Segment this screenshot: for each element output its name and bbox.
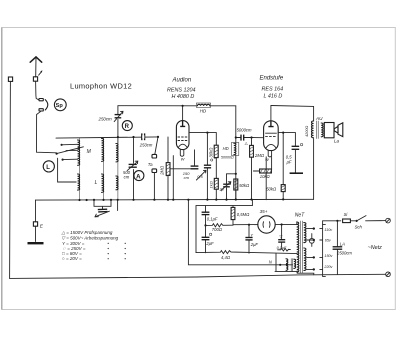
svg-text:Audion: Audion	[172, 78, 192, 84]
wire antenna to Sp jack	[36, 81, 39, 100]
endstufe anode cap wire	[270, 106, 272, 121]
anode wire audion side	[189, 133, 216, 146]
svg-text:R: R	[125, 124, 130, 130]
hum cap 0,1uF	[281, 225, 283, 248]
box column 0,1uF / 2uF	[205, 206, 207, 253]
antenna trimmer column wire	[117, 106, 119, 143]
svg-text:2MΩ: 2MΩ	[160, 165, 165, 176]
speaker feed column	[313, 106, 315, 199]
tube V2 top cap	[268, 121, 273, 126]
cathode cap column	[206, 133, 208, 200]
tap labels	[323, 228, 333, 269]
earth ground symbol	[28, 242, 44, 244]
heater wire from rail	[188, 200, 292, 265]
svg-text:L: L	[46, 165, 50, 171]
svg-text:1kΩ: 1kΩ	[209, 181, 214, 188]
svg-text:RENS 1204: RENS 1204	[167, 88, 195, 94]
svg-text:0,1μF: 0,1μF	[207, 216, 218, 221]
circle A	[134, 171, 144, 181]
svg-text:L 416 D: L 416 D	[264, 94, 283, 100]
svg-text:50kΩ: 50kΩ	[266, 186, 277, 191]
svg-text:2μF: 2μF	[250, 242, 259, 247]
cathode resistor 50k	[281, 185, 285, 192]
endstufe filament columns	[266, 157, 271, 200]
ground rail y=200	[36, 198, 314, 201]
coupling coil column	[117, 143, 119, 200]
junction hum cap	[281, 223, 283, 225]
svg-text:50kΩ: 50kΩ	[239, 183, 250, 188]
Sp jack lower contact	[39, 109, 43, 111]
trimmer capacitor 250cm	[115, 115, 122, 118]
tuning cap bracket below rail	[94, 200, 111, 209]
label Audion tube type	[167, 78, 195, 101]
svg-text:HD: HD	[200, 109, 207, 114]
svg-text:~Netz: ~Netz	[368, 245, 383, 251]
left earth post terminal	[8, 77, 12, 81]
tube V1 filament arc	[178, 144, 187, 147]
rectifier anode wire	[233, 224, 258, 226]
output transformer AU primary	[311, 121, 313, 138]
trimmer capacitor 500cm	[129, 164, 137, 167]
tube V2 grid dashes	[265, 133, 277, 136]
svg-text:250cm: 250cm	[139, 142, 153, 147]
svg-text:H 4080 D: H 4080 D	[172, 94, 195, 100]
grid circuit 500cm trimmer column	[133, 137, 135, 200]
svg-text:700Ω: 700Ω	[212, 227, 223, 232]
tone capacitor 0,5uF	[283, 133, 295, 147]
svg-text:Lumophon WD12: Lumophon WD12	[70, 82, 132, 91]
svg-text:Ta: Ta	[148, 162, 153, 167]
svg-text:cm: cm	[124, 175, 130, 180]
selector to fuse wire	[323, 221, 341, 225]
top wire endstufe	[271, 105, 314, 108]
fuse Si	[343, 219, 351, 223]
grid stopper 10k	[260, 169, 272, 173]
series capacitor 250cm	[142, 133, 145, 140]
svg-text:2μ: 2μ	[219, 188, 224, 192]
top coil bus wire	[56, 137, 158, 138]
tube V2 filament arc	[266, 144, 276, 147]
tube V1 top cap	[180, 121, 185, 126]
dial lamp	[309, 238, 314, 243]
svg-text:150v: 150v	[324, 254, 333, 258]
wave switch arm	[57, 147, 84, 154]
screen resistor 30k	[214, 145, 218, 157]
rectifier tube 35	[258, 216, 275, 233]
earth branch E	[35, 200, 37, 222]
label Endstufe tube type	[260, 76, 284, 100]
svg-text:Y: Y	[250, 233, 253, 238]
switch contact dots	[61, 144, 63, 146]
svg-text:4200Ω: 4200Ω	[305, 126, 309, 137]
svg-text:0,5: 0,5	[197, 174, 203, 179]
mains switch Sch	[356, 220, 358, 222]
tube V2 filament leads	[268, 150, 271, 157]
tube V1 audion envelope	[176, 121, 189, 150]
tube V1 filament leads	[180, 150, 184, 157]
svg-text:AU: AU	[315, 116, 323, 121]
Ta pickup branch	[155, 137, 158, 154]
legend	[61, 230, 126, 261]
Sp jack upper contact	[39, 99, 43, 101]
heater winding	[286, 259, 288, 270]
mains terminal lower	[386, 272, 391, 277]
bias box outline	[196, 200, 252, 253]
wire Sp to switch	[37, 111, 57, 153]
coil M lower	[78, 174, 80, 190]
loudspeaker La	[324, 123, 334, 138]
rail junction dots	[78, 198, 284, 201]
NeT primary winding	[297, 222, 299, 272]
filament columns to rail	[168, 137, 173, 200]
svg-text:Sp: Sp	[56, 103, 64, 109]
anode branch right	[278, 133, 283, 200]
box bottom wire	[196, 251, 297, 254]
junction grid cap on top wire	[182, 105, 184, 107]
anode choke HD	[234, 143, 236, 155]
svg-text:110v: 110v	[324, 228, 333, 232]
AU core	[317, 121, 319, 139]
svg-text:△ = 1500V Prüfspannung: △ = 1500V Prüfspannung	[61, 230, 113, 235]
tube V1 grid dashes	[178, 136, 188, 138]
Sp jack bracket	[45, 100, 48, 110]
circle L	[43, 161, 54, 172]
choke HD on top wire	[197, 104, 209, 106]
wire below switch	[58, 158, 77, 182]
svg-text:5000cm: 5000cm	[237, 127, 252, 132]
NeT secondary winding	[304, 223, 306, 243]
coil M upper	[79, 138, 81, 200]
buffer cap LA 2500cm	[336, 221, 338, 275]
secondary taps	[307, 229, 314, 270]
endstufe grid leak 2M	[251, 138, 253, 200]
svg-text:220v: 220v	[323, 265, 333, 269]
mains terminal upper	[386, 218, 391, 223]
anode column from top wire	[235, 106, 237, 200]
tube V2 endstufe envelope	[264, 121, 279, 151]
svg-text:50000Ω: 50000Ω	[221, 156, 234, 160]
svg-text:Sch: Sch	[355, 224, 363, 229]
svg-text:cm: cm	[184, 175, 190, 180]
svg-text:10kΩ: 10kΩ	[260, 174, 271, 179]
main tuning capacitor	[98, 209, 108, 212]
svg-text:2μF: 2μF	[205, 241, 214, 246]
svg-text:A: A	[136, 173, 141, 180]
svg-text:2500cm: 2500cm	[336, 251, 352, 256]
coil L upper	[103, 137, 105, 200]
svg-text:HD: HD	[223, 146, 229, 151]
svg-text:RES 164: RES 164	[262, 87, 284, 93]
antenna A	[30, 57, 42, 77]
left vertical wire	[9, 81, 12, 278]
svg-text:2MΩ: 2MΩ	[254, 153, 265, 158]
top wire audion	[118, 105, 236, 107]
svg-text:○ = 20V =: ○ = 20V =	[62, 256, 82, 261]
coil L lower	[102, 174, 104, 192]
small zigzag resistor	[278, 248, 291, 251]
svg-text:35+: 35+	[260, 209, 268, 214]
svg-text:NeT: NeT	[295, 212, 305, 218]
AU secondary	[321, 123, 323, 137]
svg-text:μF: μF	[286, 159, 292, 164]
grid leak arrow 0,5	[196, 170, 206, 180]
rectifier to transformer	[275, 223, 296, 225]
svg-text:L: L	[95, 180, 98, 186]
cap Y 2uF	[248, 225, 250, 254]
coupling capacitor 5000cm	[236, 137, 263, 139]
svg-text:250cm: 250cm	[98, 117, 113, 122]
grid leak 2M resistor	[166, 163, 170, 176]
svg-text:Endstufe: Endstufe	[260, 76, 284, 82]
circle R	[122, 121, 132, 131]
anode load 50k	[234, 179, 238, 190]
decoupling branch to trimmer	[227, 174, 236, 200]
Sp circle	[54, 99, 66, 111]
bottom rail wire	[10, 274, 386, 278]
junction dots tuner	[117, 136, 119, 138]
antenna terminal	[33, 77, 37, 81]
resistor 0,5M	[232, 206, 234, 225]
audion grid cap wire	[182, 106, 184, 121]
svg-text:30kΩ: 30kΩ	[209, 147, 214, 158]
bias resistor 1k	[214, 178, 218, 189]
voltage selector bracket	[323, 224, 326, 276]
resistor 700 ohm zigzag	[206, 224, 234, 227]
coupling coil lower	[116, 176, 118, 190]
svg-text:0,5MΩ: 0,5MΩ	[237, 212, 250, 217]
svg-text:La: La	[334, 138, 340, 143]
svg-text:4,4Ω: 4,4Ω	[221, 255, 231, 260]
grid capacitor 150cm	[191, 166, 199, 169]
svg-text:LA: LA	[340, 241, 345, 246]
